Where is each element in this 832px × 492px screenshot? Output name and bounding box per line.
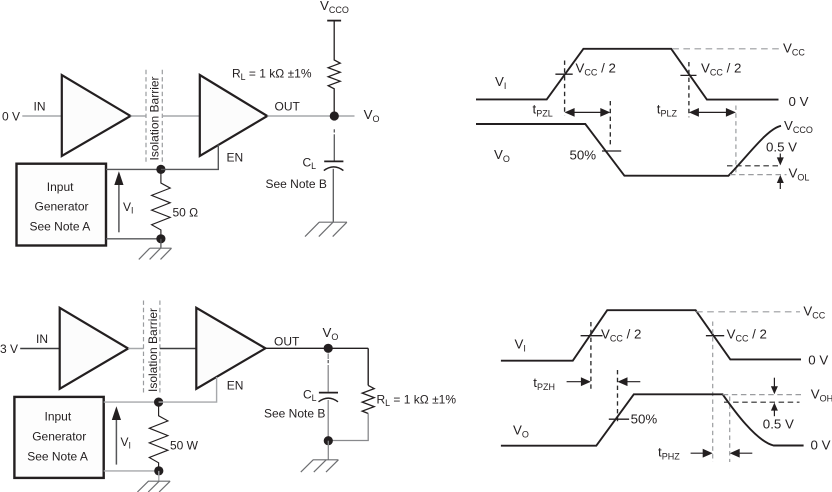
- svg-text:Generator: Generator: [35, 200, 89, 214]
- input generator box: [14, 397, 103, 478]
- VI arrow: [115, 419, 117, 465]
- tPLZ arrow: [691, 111, 733, 113]
- svg-text:See Note B: See Note B: [266, 177, 327, 191]
- waveform VI (bottom): [501, 310, 801, 361]
- waveform VO (bottom): [501, 394, 804, 445]
- tick 50%: [602, 150, 621, 152]
- wire OUT to node VO: [265, 347, 368, 349]
- ground (input side, bottom circuit): [137, 481, 170, 492]
- resistor RL branch wire bottom: [328, 414, 368, 441]
- tick VCC/2 rising: [555, 73, 572, 75]
- buffer U3: [60, 308, 129, 389]
- tPZH arrow right: [567, 381, 589, 383]
- tick 50%: [609, 418, 629, 420]
- svg-text:Generator: Generator: [32, 430, 86, 444]
- dashed line gray at VO disable point: [735, 106, 737, 176]
- svg-text:See Note A: See Note A: [27, 450, 88, 464]
- svg-text:See Note A: See Note A: [30, 220, 91, 234]
- svg-text:0 V: 0 V: [811, 438, 831, 453]
- svg-text:0 V: 0 V: [808, 353, 828, 368]
- waveform VI (top): [476, 49, 779, 100]
- ground (load side, bottom circuit): [301, 460, 339, 472]
- isolation barrier dashed line left: [145, 70, 147, 162]
- svg-text:50 Ω: 50 Ω: [173, 206, 199, 220]
- VOL up arrow: [779, 183, 781, 189]
- svg-text:50%: 50%: [631, 412, 658, 427]
- dashed line VCC level: [672, 48, 779, 50]
- 0.5V up arrow: [773, 411, 775, 417]
- dashed VOH-0.5 level line: [724, 401, 800, 403]
- wire EN node to EN pin: [161, 145, 218, 170]
- wire bottom node to ground: [327, 441, 329, 460]
- tick VCC/2 falling: [706, 335, 724, 337]
- svg-text:0.5 V: 0.5 V: [766, 140, 797, 155]
- wire OUT to node VO: [267, 115, 354, 117]
- ground (load side, top circuit): [305, 222, 347, 236]
- wire generator bottom to ground node: [106, 238, 161, 240]
- svg-text:Input: Input: [45, 410, 72, 424]
- wire CL to bottom node: [327, 400, 329, 441]
- dashed line at VO 50% crossing: [617, 370, 619, 422]
- svg-text:IN: IN: [34, 100, 46, 114]
- svg-text:IN: IN: [36, 332, 48, 346]
- dashed VOL level line: [730, 174, 787, 176]
- svg-text:OUT: OUT: [275, 100, 301, 114]
- svg-text:50 W: 50 W: [170, 439, 199, 453]
- wire ground node to ground: [158, 471, 160, 481]
- VI arrow: [118, 184, 120, 232]
- resistor RL branch wire top: [367, 348, 369, 385]
- ground node junction dot: [156, 234, 165, 243]
- wire U3 output to barrier: [128, 348, 143, 350]
- buffer U4: [196, 308, 265, 389]
- buffer U1: [62, 75, 131, 156]
- wire barrier to U2: [162, 115, 200, 117]
- 0.5V down arrow: [779, 154, 781, 159]
- wire U1 output to barrier: [131, 115, 147, 117]
- svg-text:0 V: 0 V: [789, 94, 809, 109]
- EN node junction dot: [154, 398, 163, 407]
- wire generator to EN node: [104, 401, 159, 403]
- tPZL arrow: [567, 111, 608, 113]
- capacitor CL top plate: [324, 160, 343, 162]
- wire ground node to ground: [160, 239, 162, 248]
- capacitor CL top plate: [319, 392, 338, 394]
- tPHZ arrow left: [732, 452, 752, 454]
- ground node junction dot: [154, 466, 163, 475]
- svg-text:50%: 50%: [570, 148, 597, 163]
- svg-text:Isolation Barrier: Isolation Barrier: [146, 308, 160, 392]
- isolation barrier dashed line left: [143, 301, 145, 393]
- resistor RL with leads: [328, 21, 340, 114]
- tick VCC/2 rising: [581, 335, 603, 337]
- dashed line VCC level: [696, 311, 800, 313]
- dashed line at VI rising crossing: [590, 322, 592, 390]
- dashed line gray at VO disable point: [729, 397, 731, 463]
- wire generator to EN node: [106, 168, 161, 170]
- dashed VOH level line: [723, 394, 801, 396]
- input generator box: [17, 164, 107, 246]
- EN node junction dot: [156, 165, 165, 174]
- svg-text:Input: Input: [47, 180, 74, 194]
- svg-text:0.5 V: 0.5 V: [763, 417, 794, 432]
- svg-text:EN: EN: [227, 379, 244, 393]
- svg-text:See Note B: See Note B: [264, 407, 325, 421]
- isolation barrier dashed line right: [159, 301, 161, 393]
- waveform VO (top): [476, 124, 781, 176]
- resistor 50 W with leads: [149, 406, 168, 471]
- wire EN node to EN pin: [159, 377, 217, 402]
- node VO junction dot: [330, 111, 339, 120]
- node VO junction dot: [324, 344, 333, 353]
- resistor 50 ohm with leads: [152, 174, 171, 239]
- VCCO power rail bar: [327, 20, 341, 22]
- buffer U2: [200, 75, 267, 156]
- wire node VO down to CL: [327, 354, 329, 360]
- wire IN: [22, 115, 61, 117]
- VOH down arrow: [773, 378, 775, 388]
- svg-text:3 V: 3 V: [0, 342, 18, 356]
- svg-text:Isolation Barrier: Isolation Barrier: [148, 76, 162, 160]
- resistor RL: [362, 385, 374, 413]
- capacitor CL curved plate: [324, 167, 344, 171]
- wire IN: [20, 348, 59, 350]
- svg-text:EN: EN: [227, 151, 244, 165]
- wire node VO down to CL: [333, 129, 335, 132]
- capacitor CL curved plate: [319, 398, 339, 402]
- wire CL to ground: [332, 169, 334, 222]
- wire generator bottom to ground node: [104, 470, 159, 472]
- svg-text:OUT: OUT: [274, 335, 300, 349]
- tPZH arrow left: [620, 381, 640, 383]
- wire barrier to U4: [160, 348, 196, 350]
- isolation barrier dashed line right: [161, 70, 163, 162]
- tick VCC/2 falling: [680, 74, 696, 76]
- dashed line gray at VI falling crossing: [712, 322, 714, 463]
- dashed 0.5V level line: [727, 165, 781, 167]
- tPHZ arrow right: [691, 452, 711, 454]
- bottom node junction dot: [324, 436, 333, 445]
- ground (input side, top circuit): [139, 248, 172, 259]
- dashed line at VI rising crossing: [564, 61, 566, 116]
- svg-text:0 V: 0 V: [2, 110, 20, 124]
- dashed line at VO 50% crossing: [609, 101, 611, 147]
- dashed line at VI falling crossing: [688, 62, 690, 117]
